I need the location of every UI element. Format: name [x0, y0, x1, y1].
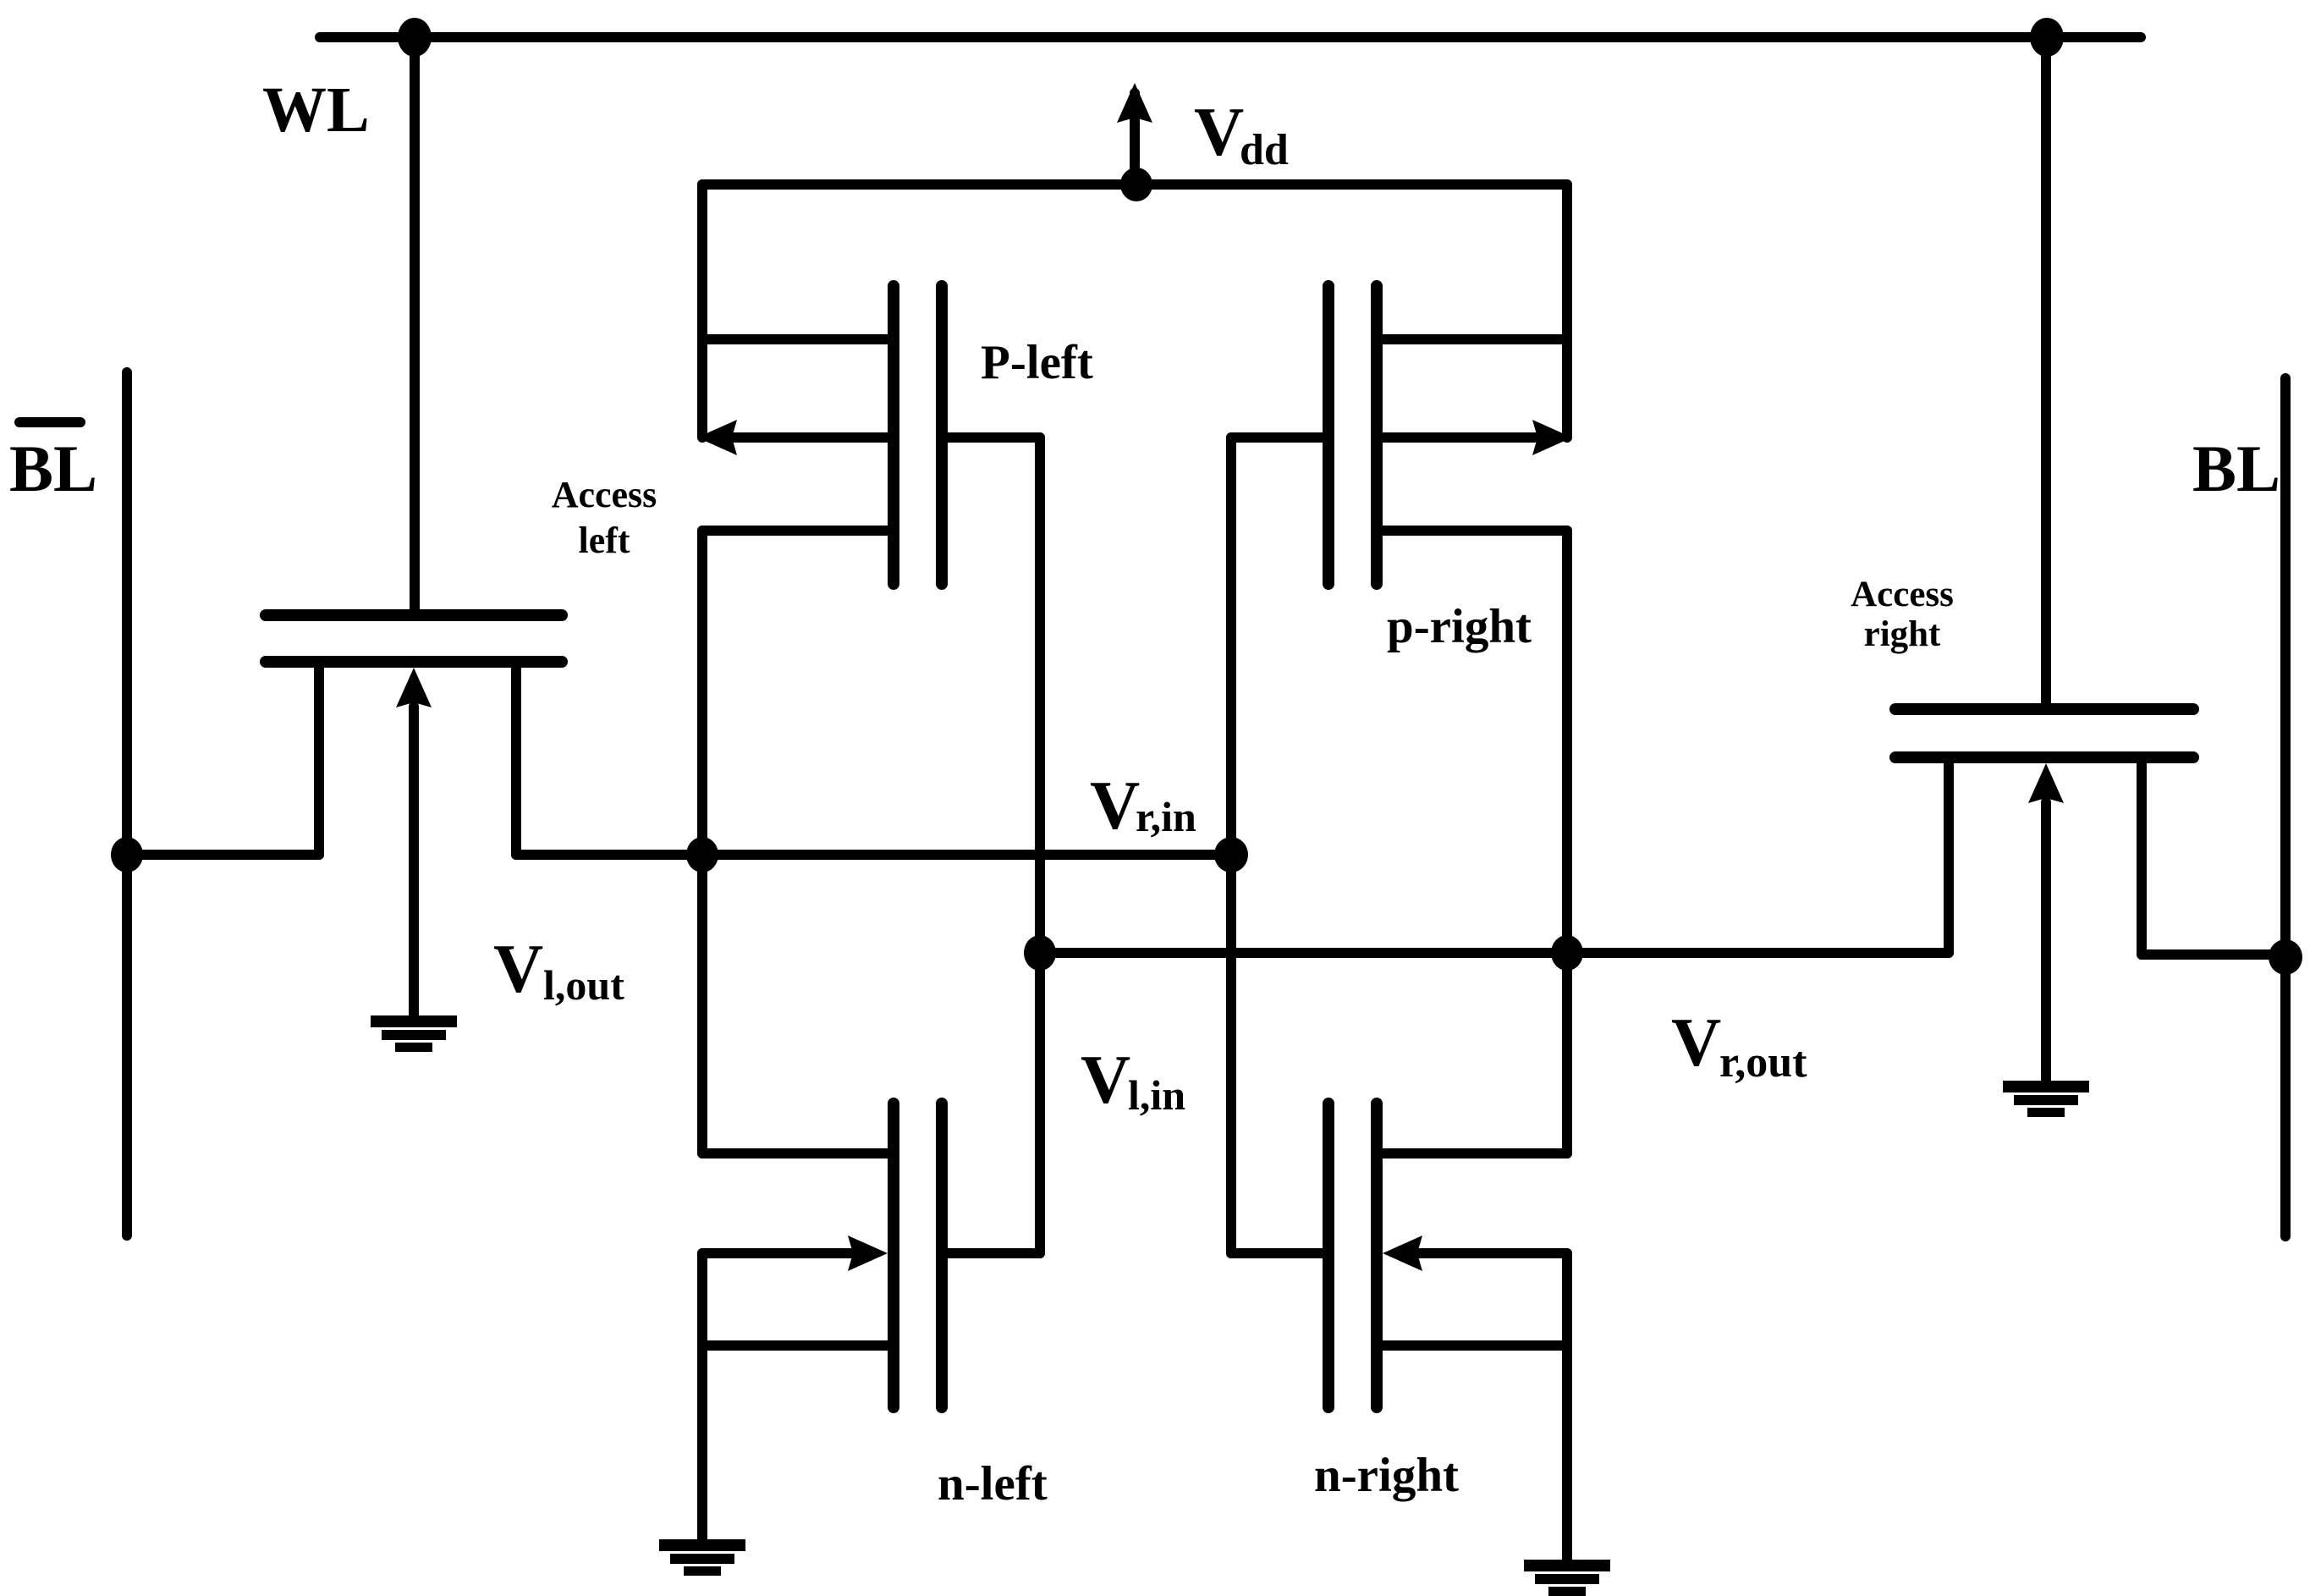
svg-text:V: V — [1671, 1004, 1721, 1081]
svg-text:l,in: l,in — [1128, 1071, 1185, 1119]
svg-text:r,in: r,in — [1136, 793, 1196, 840]
svg-text:n-right: n-right — [1314, 1449, 1459, 1502]
svg-text:r,out: r,out — [1719, 1038, 1807, 1087]
svg-text:WL: WL — [262, 74, 370, 146]
svg-text:V: V — [493, 930, 543, 1007]
svg-text:V: V — [1081, 1041, 1130, 1118]
svg-text:left: left — [578, 520, 630, 561]
svg-text:right: right — [1864, 614, 1941, 654]
svg-text:P-left: P-left — [981, 336, 1093, 389]
svg-text:n-left: n-left — [938, 1457, 1048, 1511]
svg-text:V: V — [1090, 767, 1140, 844]
svg-text:BL: BL — [2192, 432, 2280, 505]
svg-text:BL: BL — [9, 432, 97, 505]
svg-text:dd: dd — [1240, 126, 1289, 174]
svg-text:Access: Access — [1851, 575, 1954, 614]
svg-text:p-right: p-right — [1387, 600, 1532, 653]
svg-text:V: V — [1194, 93, 1244, 170]
svg-text:Access: Access — [552, 474, 657, 515]
svg-text:l,out: l,out — [543, 961, 624, 1009]
